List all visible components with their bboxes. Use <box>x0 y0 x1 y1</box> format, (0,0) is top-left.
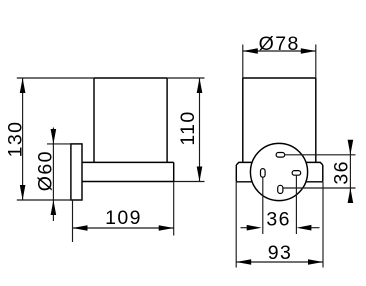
svg-text:Ø60: Ø60 <box>35 150 57 191</box>
dimension O78 arrow right <box>301 48 316 54</box>
right view: mounting bar <box>236 162 322 181</box>
dimension O60 arrow down (top, outside) <box>51 129 57 144</box>
dimension 36 horizontal arrow left (outside) <box>247 225 262 231</box>
hole top <box>276 153 285 158</box>
dimension 130 arrow down <box>20 185 26 200</box>
left view: wall plate (O60 disc edge-on) <box>71 144 82 200</box>
dimension 109 extension left <box>72 200 74 242</box>
dimension 36 vertical arrow down <box>348 140 354 155</box>
leader from bottom hole <box>283 187 356 189</box>
hole bottom <box>278 185 283 193</box>
dimension 110 arrow down <box>197 167 203 182</box>
leader from right hole <box>295 175 297 234</box>
left view: holder ring arm <box>82 162 174 181</box>
left view: plate-top extension line <box>47 143 71 145</box>
dimension O78 arrow left <box>243 48 258 54</box>
dimension O78 line <box>243 50 316 52</box>
dimension 109 line <box>73 227 174 229</box>
dimension 109 arrow right <box>159 225 174 231</box>
svg-text:36: 36 <box>266 208 291 230</box>
dimension 36 vertical arrow up <box>348 188 354 203</box>
dimension O60 line <box>52 128 54 222</box>
dimension 93 line <box>236 261 323 263</box>
dimension 130 arrow up <box>20 78 26 93</box>
dimension 109 extension right <box>173 182 175 236</box>
dimension 93 arrow right <box>308 259 323 265</box>
dimension 93 arrow left <box>236 259 251 265</box>
svg-text:93: 93 <box>268 242 293 264</box>
dimension 93 extension right <box>322 182 324 268</box>
svg-text:109: 109 <box>105 207 142 229</box>
dimension 36 horizontal right tail <box>311 227 320 229</box>
svg-text:Ø78: Ø78 <box>259 33 300 55</box>
dimension 110 arrow up <box>197 78 203 93</box>
right view: cup outline <box>243 78 316 162</box>
left view: bottom extension line <box>17 199 82 201</box>
left view: ring-bottom extension line <box>174 181 205 183</box>
dimension 36 vertical line <box>349 141 351 203</box>
left view: top extension line <box>17 77 205 79</box>
dimension 110 line <box>199 78 201 182</box>
hole right <box>292 171 301 176</box>
dimension O60 arrow up (bottom, outside) <box>51 200 57 215</box>
dimension 36 horizontal arrow right (outside) <box>296 225 311 231</box>
leader from left hole <box>262 177 264 234</box>
left view: cup outline <box>94 78 167 162</box>
dimension 93 extension left <box>235 182 237 268</box>
dimension O78 extension right <box>315 45 317 79</box>
leader from top hole <box>284 154 355 156</box>
dimension 130 line <box>22 78 24 200</box>
dimension O78 extension left <box>242 45 244 79</box>
dimension 36 horizontal left tail <box>241 227 249 229</box>
hole left <box>261 169 266 178</box>
svg-text:110: 110 <box>177 110 199 145</box>
right view: mounting plate circle <box>250 143 307 200</box>
svg-text:130: 130 <box>5 121 27 158</box>
svg-text:36: 36 <box>331 160 353 185</box>
dimension 109 arrow left <box>73 225 88 231</box>
